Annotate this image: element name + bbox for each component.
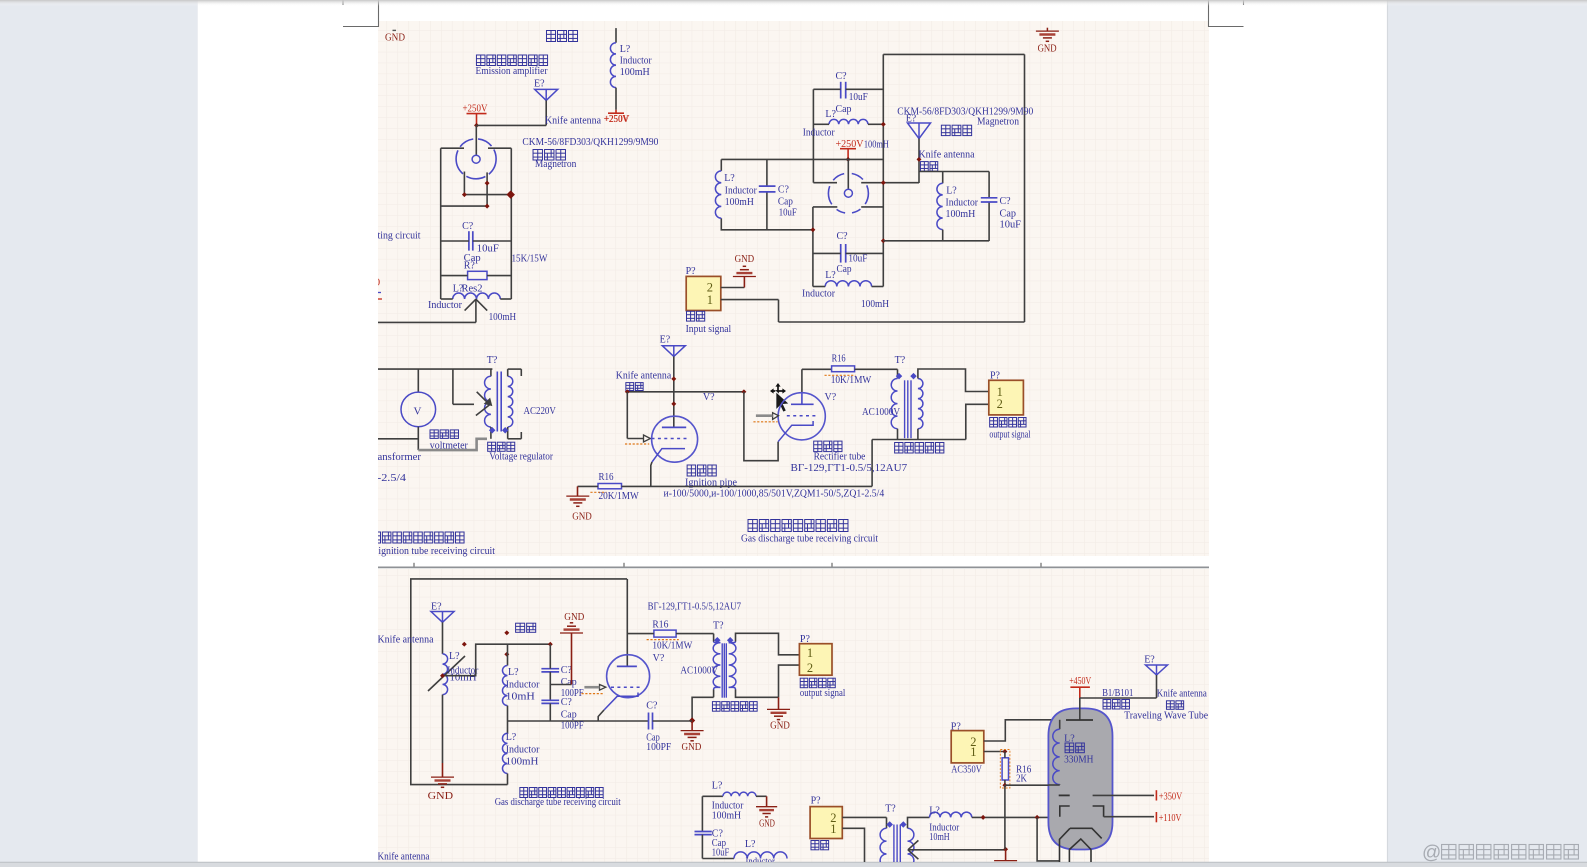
knife antenna E1 [535,89,558,100]
transformer T1 secondary lead top [507,369,509,376]
power GND a page2 [691,721,693,731]
label 天线 (E5) [1166,701,1174,710]
wire L10 to GND corner [756,795,767,797]
inductor L5 coil (lower loop) [825,281,871,287]
connector P2 output box [989,380,1024,415]
wire inductor tap down [475,299,477,322]
long wire bottom rail y=486.4 [622,485,873,487]
svg-text:GND: GND [572,512,592,523]
svg-text:R16: R16 [599,472,614,483]
svg-text:C?: C? [462,221,474,232]
wire cathode to input junction [744,392,778,461]
svg-text:Cap: Cap [836,104,852,115]
junction dot row2 [485,204,490,209]
svg-text:Cap: Cap [561,677,577,688]
wire TWT coil bottom to rail [1049,784,1060,786]
wire V5 cathode to rail [598,710,604,721]
magnetron 1 filament lead left [463,172,465,195]
power GND mid page2 symbol [570,622,573,624]
compile squiggle R3 [825,374,856,376]
power GND under R2 [577,486,579,496]
svg-text:voltmeter: voltmeter [430,441,469,452]
label 天线 (E4) [516,623,525,632]
svg-text:Gas discharge tube receiving c: Gas discharge tube receiving circuit [495,797,621,808]
connector P3 output box [799,644,832,676]
ignition tube V3 plate [662,426,686,428]
wire antenna E3 stem down to tube [673,357,675,428]
wire cap column segments [549,644,551,669]
svg-text:ting circuit: ting circuit [378,231,421,242]
voltmeter PV1 bottom lead [417,427,419,450]
wire P4 pin2 to T4 [842,816,886,818]
wire top rail y=369.1 [378,368,492,370]
svg-text:Inductor: Inductor [506,680,540,691]
TWT +110V grid bracket left [1060,806,1070,817]
transformer T1 secondary lead bottom [507,427,509,439]
wire C9 down to bottom coil [701,835,703,859]
transformer T3 primary coil [714,642,721,643]
wire filament row 2 [441,205,487,207]
wire cathode to bottom rail [651,462,652,486]
svg-text:100mH: 100mH [864,140,889,151]
label 磁控管 (magnetron 2) [941,125,950,135]
wire L7 tap jog [443,644,551,676]
right tank left leg with inductor L6 [942,172,944,184]
wire +110V [1104,816,1154,818]
svg-text:100mH: 100mH [712,811,741,822]
inductor L10 coil (100mH) [723,792,756,796]
resistor R2 (20K/1MW) body [598,484,622,489]
wire rail to TWT coil bottom [1005,784,1049,786]
wire cap column to mid GND [550,684,571,686]
transformer T1 core [496,372,498,432]
svg-text:Inductor: Inductor [803,127,836,138]
svg-text:E?: E? [1144,655,1155,666]
right tank bottom wire [883,240,989,242]
power GND bottom (cut by strip) [1005,849,1007,860]
magnetron 1 filament lead right [486,172,488,206]
svg-text:Cap: Cap [778,196,793,207]
svg-text:Magnetron: Magnetron [535,159,577,170]
svg-text:V?: V? [703,392,715,403]
transformer T2 polarity dots [896,373,903,380]
junction dot rail end [689,717,695,723]
svg-text:C?: C? [646,700,658,711]
compile squiggle R2 [590,491,606,493]
selected wire voltmeter to regulator (thick gray) [418,439,487,450]
compile-error squiggle under arrow [625,443,649,445]
inductor L13 coil inside TWT [1059,720,1061,729]
svg-text:y ignition tube receiving circ: y ignition tube receiving circuit [371,546,495,557]
tube V5 circle [607,655,650,698]
wire L7 to GND [442,695,444,763]
viewer background right band [1387,0,1587,867]
svg-text:10K/1MW: 10K/1MW [652,641,692,652]
viewer background left band [0,0,198,867]
label 电压表 voltmeter CJK [430,430,438,439]
svg-text:+250V: +250V [605,114,630,125]
svg-text:AC1000V: AC1000V [680,665,718,676]
TWT +350V electrode dash right and wire [1093,794,1154,796]
svg-text:Inductor: Inductor [725,185,758,196]
svg-text:T?: T? [487,355,498,366]
svg-text:Inductor: Inductor [712,800,744,811]
wire grid row y=391.8 [627,391,744,393]
svg-text:Input signal: Input signal [686,324,732,335]
transformer T1 polarity dots [489,427,496,434]
big loop top wire to GND corner [883,53,1024,55]
label 电感 CJK (L13) [1065,743,1074,753]
transformer T4 primary coil (cut) [880,828,886,867]
svg-text:L?: L? [506,732,517,743]
tube V5 grid arrow [600,685,606,691]
svg-text:100mH: 100mH [489,312,516,323]
transformer T2 secondary top lead to P2 [918,369,989,392]
knife antenna E2 [908,123,931,139]
power port +250V under L2 [615,110,617,113]
svg-text:L?: L? [724,173,735,184]
transformer T3 secondary coil [729,642,736,643]
compile squiggle V5 [582,693,603,695]
TWT heater legs [1068,850,1070,867]
svg-text:output signal: output signal [800,688,846,699]
magnetron 1 outer box right side [510,148,512,299]
svg-text:1: 1 [807,646,813,660]
resistor R3 (10K/1MW) body [832,366,855,372]
svg-text:transformer: transformer [371,452,422,463]
selected wire at V5 grid (thick gray) [584,686,599,689]
ignition tube V3 circle [652,416,698,462]
page separator line with ruler ticks [378,566,1209,568]
right tank right leg with capacitor C5 [988,172,990,198]
transformer T4 primary lead [886,817,888,828]
svg-text:GND: GND [735,254,755,265]
magnetron V1 circle [456,139,496,179]
junction dot grid row left [625,389,630,394]
document white page [198,0,1387,862]
wire left riser x=702 [701,796,703,831]
selected wire at V4 grid (thick gray) [756,414,773,417]
junction dot row1 right [506,190,514,198]
svg-text:GND: GND [759,818,775,829]
vertical bus x=883 (magnetron 2 right side) [882,54,884,286]
svg-text:V: V [414,406,422,418]
junction dot stem upper [671,376,676,381]
regulator adjust arrow stub wire [452,369,454,404]
svg-text:C?: C? [561,665,573,676]
svg-text:20K/1MW: 20K/1MW [599,491,640,502]
compile squiggle R4 [647,639,679,641]
junction dot left tank join [810,227,815,232]
wire y=182.7 chord through magnetron 2 [813,182,837,184]
wire middle branch through rail [507,706,509,734]
transformer T4 polarity dots [886,821,893,828]
svg-text:1: 1 [830,822,836,836]
svg-text:Cap: Cap [837,264,852,275]
svg-text:Voltage regulator: Voltage regulator [489,452,553,463]
wire coil row ends [441,298,453,300]
svg-text:R16: R16 [652,619,668,630]
svg-text:C?: C? [561,697,573,708]
junction dot above middle branch [504,630,509,635]
svg-text:P?: P? [951,721,962,732]
wire P1 pin2 to GND [721,287,745,289]
svg-text:+450V: +450V [1069,676,1092,687]
svg-text:+350V: +350V [1159,792,1183,803]
inductor L1 tap arrow [465,299,476,310]
svg-text:2: 2 [997,397,1003,411]
wire cap row lower loop [813,252,841,254]
svg-text:AC350V: AC350V [951,764,982,775]
svg-text:Knife antenna: Knife antenna [1157,688,1207,699]
svg-text:100mH: 100mH [506,756,539,767]
ignition tube V3 grid arrow [644,435,651,442]
wire box top row (broken by circle) [441,147,464,149]
svg-text:330MH: 330MH [1064,755,1093,766]
capacitor C4 plates (lower loop) [840,244,842,263]
wire R5 down to rail [1004,785,1006,817]
wire plate stem to R3 [802,368,832,370]
top window gradient strip [0,0,1587,6]
capacitor C1 plates [468,231,470,250]
rectifier tube V4 circle [778,393,825,440]
left tank rectangle (L4/C3) [720,159,722,171]
label 磁控管 (magnetron 1) [533,150,542,161]
svg-text:10uF: 10uF [848,253,867,264]
wire V5 stem to R4 [627,633,654,635]
transformer T3 secondary bottom lead [736,690,779,698]
svg-text:T?: T? [885,804,896,815]
svg-text:100mH: 100mH [946,209,976,220]
svg-text:Inductor: Inductor [802,288,836,299]
magnetron V2 circle [828,173,868,213]
wire riser TWT heater return [1037,817,1059,861]
transformer T4 secondary top lead [908,817,930,828]
upper loop left side x=813 [812,89,814,182]
inductor L12 coil (10mH) [930,812,972,817]
wire anode down into magnetron 2 [847,159,849,189]
svg-text:L?: L? [825,109,836,120]
inductor L9 coil (100mH middle) [502,733,507,773]
inductor L1 coil [453,293,501,299]
transformer T1 primary lead top [490,369,492,376]
wire P5 pin2 to TWT top [984,720,1060,741]
capacitor C9 plates (10uF) [695,831,712,833]
knife antenna E4 [431,612,454,623]
inductor L8 coil (10mH middle) [502,666,507,706]
svg-text:GND: GND [385,33,405,44]
transformer T2 primary lead [897,369,899,378]
traveling wave tube B1 body [1048,708,1112,849]
junction dot tap [440,673,445,678]
wire R5 leads [1004,752,1006,758]
schematic sheet page 1 with grid [378,21,1209,556]
wire coil row upper loop [813,123,829,125]
resistor R4 (10K/1MW) body [654,630,676,637]
svg-text:output signal: output signal [989,429,1030,440]
transformer T4 adjust arrow open head [908,840,919,849]
label 气体放电管接收电路 section page2 [520,788,528,798]
inductor L11 coil (bottom, cut) [734,852,787,859]
svg-text:1: 1 [707,293,713,307]
svg-text:Knife antenna: Knife antenna [378,635,435,646]
label 天线 (E3) [626,383,634,391]
svg-text:10mH: 10mH [506,692,535,703]
connector P4 input box [810,807,842,839]
svg-text:GND: GND [428,791,453,802]
wire left branch down to grid arrow [626,392,628,439]
power GND mid page2 stem [571,633,573,685]
transformer T3 primary bottom lead [713,690,715,698]
transformer T2 secondary coil [918,379,923,429]
tube V5 grid dashes [611,686,642,688]
svg-text:15K/15W: 15K/15W [512,254,548,265]
wire R4 to transformer T3 [676,633,714,635]
capacitor C2 plates (upper loop) [840,82,842,99]
wire R5 rail crossing down to GND [1004,817,1006,849]
wire P4 pin1 down [842,828,864,866]
svg-text:C?: C? [837,231,849,242]
svg-text:10uF: 10uF [1000,220,1022,231]
lower loop of magnetron 2 top wire [813,206,837,208]
wire GND stub to R2 [578,485,599,487]
label 输出信号 (P3) [800,678,808,688]
junction dot below middle branch [504,652,509,657]
transformer T4 core (3 lines, cut) [893,825,895,867]
wire left stub to L10 [702,795,723,797]
wire R3 to transformer T2 [855,368,898,370]
junction dot before TWT [1035,815,1040,820]
junction dot bus y=240.8 [881,238,886,243]
label 行波管发射电路 [476,55,485,66]
svg-text:2: 2 [807,661,813,675]
label 输入 (P1) [687,311,695,321]
svg-text:L?: L? [946,186,957,197]
label 引燃管 CJK [687,465,695,476]
compile squiggle V4 grid [753,421,777,423]
big loop left riser from input P1 [778,300,780,322]
svg-text:GND: GND [682,742,702,753]
knife antenna E3 [662,346,685,357]
voltmeter PV1 top lead [417,369,419,392]
power GND label top left (cut symbol) [393,29,397,31]
svg-text:100mH: 100mH [725,197,754,208]
svg-text:и-100/5000,и-100/1000,85/501V,: и-100/5000,и-100/1000,85/501V,ZQM1-50/5,… [664,489,885,500]
wire antenna E1 stem [545,100,547,125]
resistor R1 body [468,271,487,279]
power port +350V [1155,790,1157,800]
svg-text:ВГ-129,ГТ1-0.5/5,12AU7: ВГ-129,ГТ1-0.5/5,12AU7 [791,463,908,474]
label 行波管 (B1) [1103,700,1111,710]
svg-text:+110V: +110V [1159,813,1182,824]
TWT heater inverted V [1069,839,1091,850]
resistor R5 (2K) body vertical [1002,758,1008,780]
svg-text:C?: C? [1000,196,1012,207]
wire bottom rail to sheet edge [378,438,418,440]
wire filament row 1 [464,194,511,196]
wire P5 pin1 to R5 [984,751,1005,753]
transformer T1 secondary coil [508,376,513,427]
transformer T1 primary coil [485,376,491,427]
wire L9 to bottom rect [507,774,509,785]
svg-text:B1/B101: B1/B101 [1102,688,1133,699]
wire +450V to TWT top electrode [1079,698,1081,720]
svg-text:Knife antenna: Knife antenna [616,371,672,382]
transformer T4 secondary coil (cut) [908,828,914,867]
capacitor C7 column lower plates [541,699,559,701]
wire cap row [441,240,469,242]
wire resistor row [441,275,468,277]
svg-text:100PF: 100PF [646,742,671,753]
voltmeter PV1 circle [401,392,436,427]
inductor L4 coil [715,171,721,218]
connector P5 AC350V box [951,731,984,763]
svg-text:V?: V? [653,653,665,664]
transformer T2 primary coil [891,379,897,429]
wire antenna E5 stem [1156,675,1158,698]
svg-text:E?: E? [660,335,671,346]
rectifier tube V4 grid dashes [787,415,817,417]
label 高压变压器 CJK (T3) [712,702,720,712]
svg-text:T?: T? [895,355,906,366]
tube V5 plate stem (big rect right edge) [626,579,628,667]
label 气体放电管接收电路 section page1 [748,520,757,532]
svg-text:Magnetron: Magnetron [977,116,1019,127]
rectifier tube V4 cathode [778,421,813,442]
junction dot R5 top [1002,749,1007,754]
svg-text:@: @ [1422,843,1441,864]
label 银引燃管接收电路 section (cut) [372,532,381,543]
wire cap row upper loop [813,88,840,90]
transformer T2 primary lead bottom [897,429,899,440]
power GND top right symbol [1046,28,1048,31]
rectifier tube V4 plate [791,403,814,405]
label 高压变压器 CJK (T2) [895,443,903,454]
label 输出信号 (P2) [990,418,998,428]
junction dot row1 left [462,192,467,197]
svg-text:L?: L? [620,44,631,55]
transformer T1 primary lead bottom [490,427,492,439]
svg-text:100mH: 100mH [620,67,650,78]
svg-text:L?: L? [712,780,723,791]
wire P2 pin2 riser [966,404,989,439]
big rectangle loop page2 [411,579,627,785]
svg-text:R16: R16 [832,353,846,364]
svg-text:Cap: Cap [561,710,577,721]
svg-text:L?: L? [745,839,756,850]
svg-text:Inductor: Inductor [946,197,979,208]
svg-text:10uF: 10uF [779,207,797,218]
TWT +110V grid bracket right [1093,806,1104,817]
label 整流管 CJK [814,441,822,452]
selection marquee around R5 [1000,750,1010,789]
transformer T3 primary lead top [713,634,715,642]
svg-text:10mH: 10mH [450,673,477,684]
svg-text:P?: P? [800,634,811,645]
wire T2 bottom rail [872,439,966,441]
junction dot chord at bus [881,180,886,185]
svg-text:Rectifier tube: Rectifier tube [814,452,866,463]
svg-text:Knife antenna: Knife antenna [378,852,431,863]
svg-text:Gas discharge tube receiving c: Gas discharge tube receiving circuit [741,534,878,545]
power GND at P1 pin2 [743,276,745,287]
capacitor C6 column upper plates [541,668,559,670]
svg-text:L?: L? [825,270,836,281]
label 调压器 CJK [488,442,496,451]
TWT +350V electrode dash left [1059,794,1070,796]
label 行波管 traveling wave tube (top) [546,31,555,42]
tube V5 plate [617,665,637,667]
